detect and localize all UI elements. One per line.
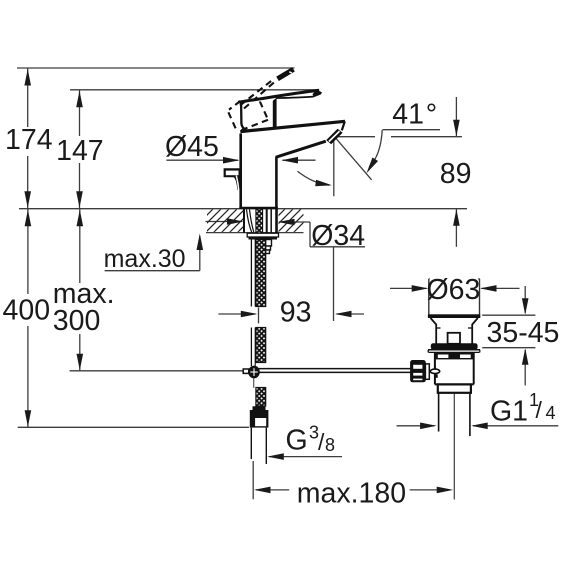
svg-text:4: 4 bbox=[546, 403, 556, 423]
svg-text:41: 41 bbox=[392, 98, 424, 130]
svg-text:Ø63: Ø63 bbox=[427, 274, 481, 306]
svg-text:400: 400 bbox=[3, 294, 51, 326]
svg-text:Ø34: Ø34 bbox=[311, 220, 365, 252]
svg-text:G1: G1 bbox=[490, 396, 528, 428]
svg-text:300: 300 bbox=[53, 305, 101, 337]
svg-text:93: 93 bbox=[280, 297, 312, 329]
svg-text:max.180: max.180 bbox=[297, 477, 406, 509]
svg-text:G: G bbox=[286, 425, 308, 457]
svg-text:/: / bbox=[318, 429, 325, 455]
svg-text:max.30: max.30 bbox=[104, 245, 186, 273]
svg-text:Ø45: Ø45 bbox=[165, 131, 219, 163]
svg-text:147: 147 bbox=[56, 135, 104, 167]
svg-text:174: 174 bbox=[5, 124, 53, 156]
svg-text:35-45: 35-45 bbox=[487, 317, 560, 349]
svg-text:°: ° bbox=[426, 98, 437, 130]
svg-text:89: 89 bbox=[440, 158, 472, 190]
svg-text:/: / bbox=[536, 397, 543, 423]
svg-text:8: 8 bbox=[325, 435, 335, 455]
